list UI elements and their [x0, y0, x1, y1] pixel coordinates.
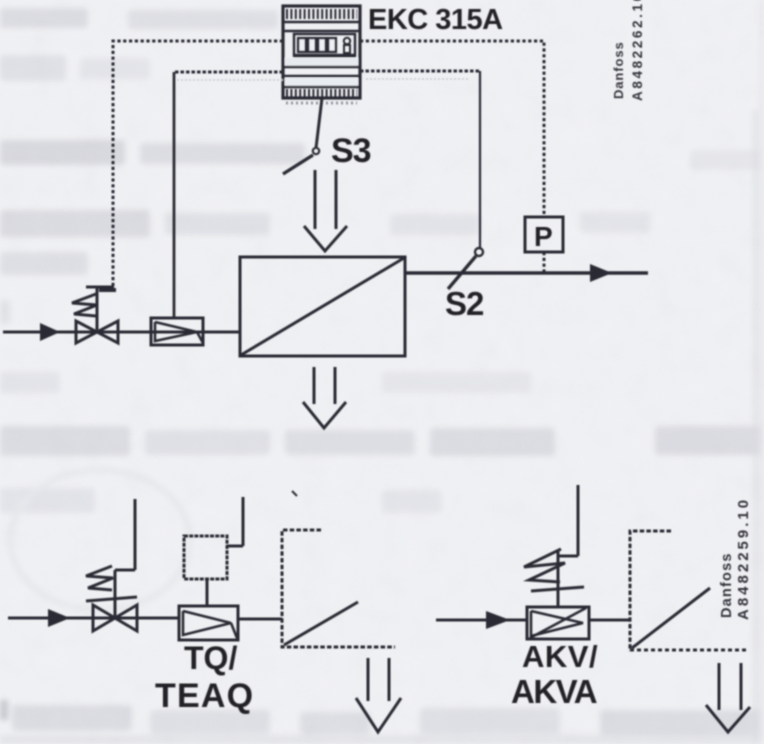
liquid inlet pipe (top diagram) [3, 331, 240, 334]
svg-text:EKC 315A: EKC 315A [368, 4, 503, 36]
air flow arrow out of evaporator [303, 367, 346, 428]
regulator body TQ [179, 606, 238, 640]
svg-text:AKVA: AKVA [511, 673, 597, 710]
svg-text:TQ/: TQ/ [184, 640, 237, 676]
flow direction arrowhead (top outlet) [590, 264, 612, 282]
evaporator coil (TQ diagram) [282, 491, 395, 647]
air flow arrow into evaporator [304, 170, 347, 251]
wire dashed controller to pressure transmitter [360, 41, 544, 216]
evaporator (top diagram) [240, 257, 405, 356]
sensor S3 [283, 148, 319, 174]
flow direction arrowhead (TQ inlet) [48, 609, 70, 627]
controller U1 EKC 315A [283, 6, 360, 103]
AKV actuator spring and coil stem [524, 485, 584, 607]
svg-text:S3: S3 [331, 132, 371, 170]
svg-text:A8482262.10: A8482262.10 [630, 0, 645, 101]
liquid regulator body (top diagram) [151, 318, 203, 345]
drawing number label Danfoss A8482259.10 [719, 497, 752, 620]
flow direction arrowhead (AKV inlet) [486, 611, 510, 629]
solenoid expansion valve AKV body [527, 607, 589, 639]
sensor S2 [448, 248, 483, 289]
evaporator coil (AKV diagram) [630, 531, 746, 651]
wire dashed controller to expansion valve actuator [113, 41, 283, 289]
svg-text:P: P [534, 221, 553, 252]
svg-text:S2: S2 [445, 285, 484, 322]
pipe AKV valve to coil [589, 619, 630, 622]
wire controller to sensor S2 [360, 71, 480, 248]
liquid inlet pipe (AKV diagram) [436, 619, 527, 622]
suction outlet pipe (top diagram) [405, 271, 648, 274]
air flow arrow (TQ evaporator) [356, 658, 401, 732]
svg-text:Danfoss: Danfoss [719, 552, 735, 618]
wire controller to regulator body [174, 72, 283, 318]
air flow arrow (AKV evaporator) [706, 663, 750, 732]
wire dashed P to suction line [543, 252, 546, 272]
svg-text:Danfoss: Danfoss [611, 41, 626, 99]
wire controller to sensor S3 [316, 98, 322, 148]
svg-text:AKV/: AKV/ [522, 639, 598, 674]
pilot element on TQ body [184, 497, 243, 606]
svg-text:TEAQ: TEAQ [155, 677, 254, 715]
pressure transmitter P [525, 217, 563, 252]
svg-text:A8482259.10: A8482259.10 [735, 497, 752, 620]
liquid inlet pipe (TQ diagram) [8, 618, 282, 619]
thermostatic expansion valve (top diagram) [72, 287, 118, 343]
flow direction arrowhead (top inlet) [40, 323, 60, 341]
thermostatic expansion valve (TQ diagram) [86, 499, 137, 631]
drawing number label Danfoss A8482262.10 [611, 0, 645, 101]
